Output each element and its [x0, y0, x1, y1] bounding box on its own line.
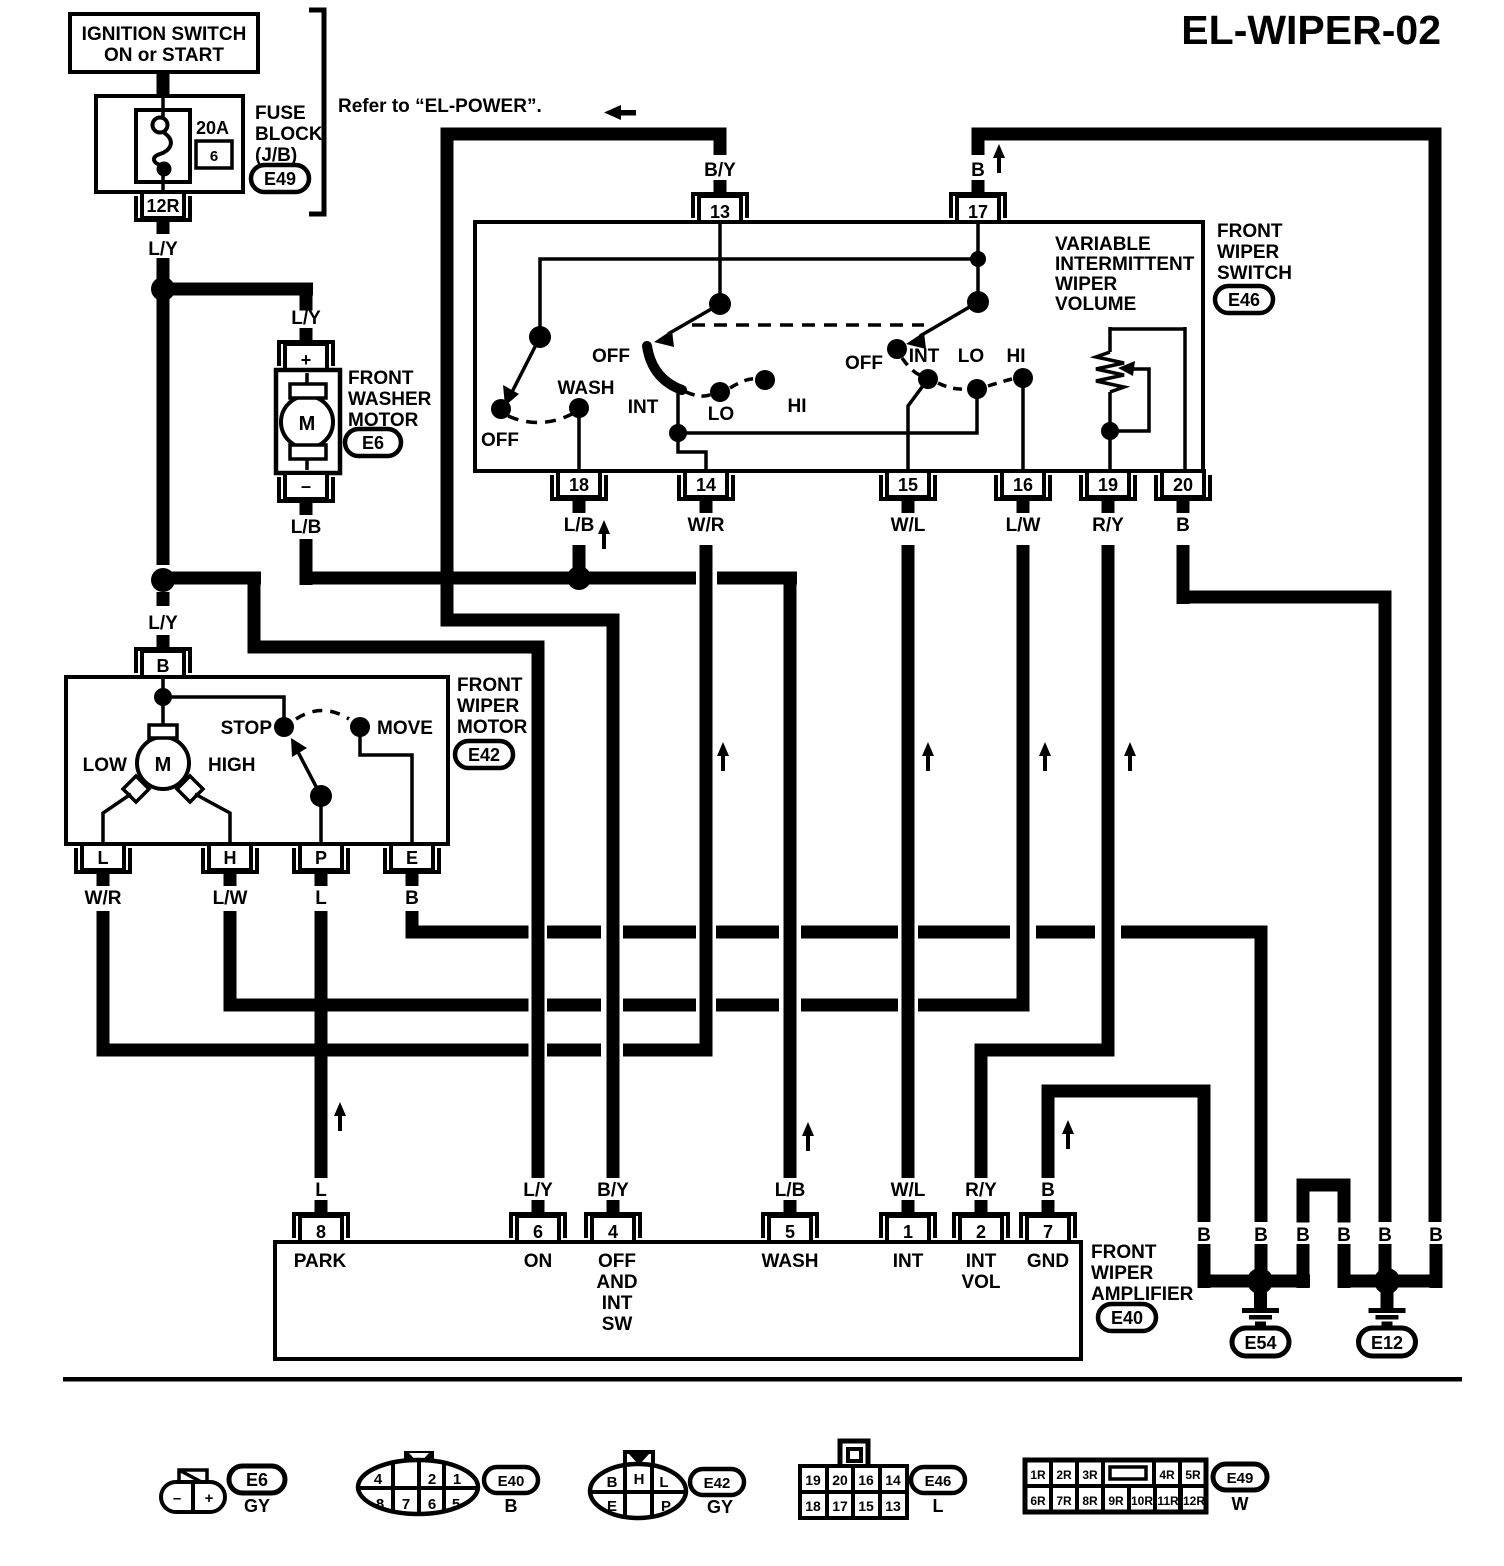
svg-text:B: B — [1197, 1225, 1211, 1246]
arrow up on W/L wire — [922, 742, 934, 771]
wire E12 right arm — [1395, 1244, 1443, 1288]
wire label L/Y washer — [291, 308, 321, 329]
svg-text:L/B: L/B — [291, 517, 322, 538]
front washer motor body M — [276, 370, 340, 473]
svg-text:WIPER: WIPER — [1217, 242, 1280, 263]
svg-text:E: E — [406, 848, 418, 868]
svg-text:10R: 10R — [1131, 1494, 1153, 1508]
svg-text:BLOCK: BLOCK — [255, 124, 323, 145]
fuse block label — [255, 103, 323, 166]
arrow up at 17 — [993, 144, 1005, 173]
ground B label 2 — [1254, 1225, 1268, 1246]
svg-text:L/B: L/B — [775, 1180, 806, 1201]
svg-text:9R: 9R — [1108, 1494, 1124, 1508]
legend E49 connector face — [1025, 1460, 1206, 1512]
wire label L motor — [315, 888, 327, 909]
main switch pivot node — [709, 293, 731, 315]
svg-text:+: + — [301, 350, 312, 370]
wire label W/L 15 — [891, 515, 926, 536]
legend E42 connector face — [590, 1452, 686, 1518]
svg-text:13: 13 — [710, 202, 730, 222]
connector 14 — [679, 471, 733, 513]
park switch dashed arc — [296, 711, 349, 720]
front wiper motor box E42 — [66, 677, 448, 844]
svg-text:GY: GY — [707, 1497, 733, 1517]
svg-text:20A: 20A — [196, 118, 229, 138]
ground symbol E12 — [1369, 1292, 1406, 1326]
node L/B bus junction — [567, 566, 591, 590]
svg-text:6R: 6R — [1030, 1494, 1046, 1508]
wire inside 13 down — [718, 222, 722, 304]
legend E6 connector face — [161, 1470, 225, 1512]
svg-text:E42: E42 — [468, 745, 500, 765]
svg-text:4: 4 — [374, 1471, 383, 1488]
amp pin label GND — [1027, 1251, 1069, 1272]
wire MOVE to E — [360, 727, 412, 844]
main switch LO contact — [708, 382, 734, 425]
svg-text:15: 15 — [898, 475, 918, 495]
svg-text:P: P — [315, 848, 327, 868]
svg-text:L/B: L/B — [564, 515, 595, 536]
legend E42 oval — [690, 1469, 744, 1495]
wire B feed top to ground — [972, 128, 1442, 1223]
svg-text:E42: E42 — [704, 1475, 731, 1492]
park switch MOVE contact — [350, 717, 433, 739]
wire junction to right LO — [678, 392, 977, 433]
ground B label 3 — [1296, 1225, 1310, 1246]
svg-text:R/Y: R/Y — [1092, 515, 1124, 536]
fuse value 20A — [196, 118, 229, 138]
wire label B motor — [405, 888, 419, 909]
svg-text:FRONT: FRONT — [457, 675, 523, 696]
amp pin label ON — [524, 1251, 553, 1272]
wire E12 top arm — [1379, 1244, 1392, 1274]
resistor top wire to 20 — [1110, 327, 1185, 471]
svg-text:5: 5 — [452, 1496, 460, 1513]
wire pivot to P — [319, 796, 323, 844]
svg-text:B: B — [1254, 1225, 1268, 1246]
svg-text:1: 1 — [453, 1471, 461, 1488]
amp pin label WASH — [762, 1251, 819, 1272]
node small on 17 wire — [970, 251, 986, 267]
washer motor plus connector — [279, 328, 333, 370]
svg-text:16: 16 — [858, 1472, 874, 1488]
svg-text:E54: E54 — [1244, 1333, 1276, 1353]
svg-text:–: – — [301, 476, 311, 496]
svg-text:WIPER: WIPER — [1091, 1263, 1154, 1284]
svg-text:W: W — [1232, 1494, 1249, 1514]
washer motor minus connector — [279, 473, 333, 515]
wire HI to 16 — [1021, 378, 1025, 471]
svg-text:L/Y: L/Y — [523, 1180, 553, 1201]
svg-text:L: L — [315, 888, 327, 909]
svg-text:E: E — [607, 1498, 617, 1515]
wire stub below junction — [157, 592, 170, 606]
svg-text:6: 6 — [533, 1222, 543, 1242]
svg-text:WASHER: WASHER — [348, 389, 432, 410]
wire label L/W motor — [213, 888, 248, 909]
svg-text:PARK: PARK — [294, 1251, 347, 1272]
legend E46 color L — [933, 1496, 944, 1516]
wire stub 17 — [972, 134, 985, 155]
connector 13 — [693, 180, 747, 222]
wire label R/Y 19 — [1092, 515, 1124, 536]
wash switch wiper arm — [503, 337, 540, 406]
svg-text:WIPER: WIPER — [457, 696, 520, 717]
legend E49 oval — [1213, 1464, 1267, 1490]
svg-text:LOW: LOW — [83, 755, 127, 776]
wire label W/L amp 1 — [891, 1180, 926, 1201]
wire E54 top arm — [1255, 1244, 1268, 1274]
connector B wiper motor — [136, 635, 190, 677]
wire E54 left arm — [1198, 1244, 1254, 1288]
svg-text:8: 8 — [316, 1222, 326, 1242]
svg-text:R/Y: R/Y — [965, 1180, 997, 1201]
wire label R/Y amp 2 — [965, 1180, 997, 1201]
svg-text:2: 2 — [976, 1222, 986, 1242]
connector E42 oval — [455, 741, 513, 768]
svg-text:–: – — [173, 1490, 181, 1507]
wire label B/Y 13 — [704, 160, 736, 181]
svg-text:E46: E46 — [1228, 290, 1260, 310]
svg-text:L/Y: L/Y — [148, 239, 178, 260]
svg-text:1R: 1R — [1030, 1468, 1046, 1482]
svg-text:INT: INT — [966, 1251, 997, 1272]
svg-text:8R: 8R — [1082, 1494, 1098, 1508]
svg-text:B/Y: B/Y — [704, 160, 736, 181]
svg-text:HIGH: HIGH — [208, 755, 256, 776]
arrow left on B/Y feed — [604, 105, 636, 120]
svg-text:2: 2 — [428, 1471, 436, 1488]
right switch INT contact — [909, 346, 940, 389]
separator line — [63, 1377, 1462, 1382]
wire E12 left arm — [1338, 1244, 1381, 1288]
wire label L/W 16 — [1006, 515, 1041, 536]
front wiper amplifier label — [1091, 1242, 1194, 1305]
wire inside 17 to wash switch — [540, 222, 978, 330]
park switch STOP contact — [221, 717, 294, 739]
svg-text:W/L: W/L — [891, 515, 926, 536]
resistor variable — [1096, 327, 1124, 471]
wire INT to 15 — [908, 379, 928, 471]
svg-text:4: 4 — [608, 1222, 618, 1242]
legend E40 connector face — [358, 1451, 478, 1514]
svg-text:7: 7 — [402, 1496, 410, 1513]
svg-text:P: P — [661, 1498, 671, 1515]
main switch INT label — [628, 397, 659, 418]
connector E40 oval — [1098, 1304, 1156, 1331]
svg-text:OFF: OFF — [481, 430, 519, 451]
svg-text:Refer to “EL-POWER”.: Refer to “EL-POWER”. — [338, 96, 542, 117]
wire W/L 15 to amp INT — [902, 545, 915, 1178]
wire branch to washer motor — [163, 283, 313, 311]
wire L/W 16 to motor H — [224, 545, 1030, 1012]
amp pin label OFF AND INT SW — [596, 1251, 637, 1335]
svg-text:ON or START: ON or START — [104, 45, 224, 66]
wire B motor to ground bus — [406, 911, 1268, 1222]
legend E46 connector face — [800, 1441, 907, 1518]
right switch HI contact — [1007, 346, 1034, 388]
svg-text:7: 7 — [1043, 1222, 1053, 1242]
amp pin label INT — [893, 1251, 924, 1272]
front wiper motor label — [457, 675, 528, 738]
svg-text:B: B — [505, 1496, 518, 1516]
front wiper amplifier box E40 — [275, 1242, 1081, 1359]
ground B label 4 — [1337, 1225, 1351, 1246]
svg-text:L/Y: L/Y — [291, 308, 321, 329]
svg-text:W/R: W/R — [85, 888, 122, 909]
svg-text:6: 6 — [210, 148, 218, 165]
svg-text:LO: LO — [708, 404, 734, 425]
connector 2 amp — [954, 1200, 1008, 1242]
wire L motor to amp PARK — [315, 911, 328, 1178]
svg-text:L: L — [98, 848, 109, 868]
wire washer motor to L/B bus — [300, 539, 313, 585]
svg-text:19: 19 — [805, 1472, 821, 1488]
resistor wiper arrow — [1110, 361, 1149, 431]
wire label B/Y amp 4 — [597, 1180, 629, 1201]
wire label L/B washer — [291, 517, 322, 538]
svg-text:INT: INT — [602, 1293, 633, 1314]
svg-text:1: 1 — [903, 1222, 913, 1242]
connector P motor — [294, 844, 348, 886]
connector 18 — [552, 471, 606, 513]
svg-text:OFF: OFF — [845, 353, 883, 374]
node junction L/Y at bus — [151, 568, 175, 592]
connector 8 amp — [294, 1200, 348, 1242]
arrow up on W/R wire — [717, 742, 729, 771]
svg-text:EL-WIPER-02: EL-WIPER-02 — [1181, 7, 1441, 53]
svg-text:SWITCH: SWITCH — [1217, 263, 1292, 284]
park switch wiper arm — [291, 738, 321, 796]
fuse number 6 box — [196, 141, 232, 168]
svg-text:7R: 7R — [1056, 1494, 1072, 1508]
amp pin label PARK — [294, 1251, 347, 1272]
wire amp GND to ground bus — [1042, 1085, 1211, 1223]
wire label L/Y amp 6 — [523, 1180, 553, 1201]
svg-text:20: 20 — [1173, 475, 1193, 495]
wire main L/Y vertical — [157, 298, 170, 565]
svg-text:VOL: VOL — [961, 1272, 1000, 1293]
connector E54 oval — [1232, 1328, 1289, 1356]
svg-text:VOLUME: VOLUME — [1055, 294, 1136, 315]
wire label L/B amp 5 — [775, 1180, 806, 1201]
connector H motor — [203, 844, 257, 886]
svg-text:B: B — [1176, 515, 1190, 536]
wire label W/R motor — [85, 888, 122, 909]
ground B label 6 — [1429, 1225, 1443, 1246]
label variable intermittent wiper volume — [1055, 234, 1195, 315]
wire ignition to fuse block — [157, 72, 170, 96]
connector 12R — [136, 192, 190, 234]
svg-text:E49: E49 — [264, 169, 296, 189]
svg-text:8: 8 — [376, 1496, 384, 1513]
svg-text:2R: 2R — [1056, 1468, 1072, 1482]
svg-text:13: 13 — [885, 1498, 901, 1514]
wash switch common node — [529, 326, 551, 348]
svg-text:12R: 12R — [1183, 1494, 1205, 1508]
park switch pivot node — [310, 785, 332, 807]
connector E motor — [385, 844, 439, 886]
wire B/Y feed top — [441, 128, 727, 1179]
wire brush to H — [195, 794, 230, 844]
svg-text:B: B — [1378, 1225, 1392, 1246]
wire R/Y 19 to amp INT VOL — [975, 545, 1115, 1178]
svg-text:E40: E40 — [498, 1473, 525, 1490]
svg-text:W/R: W/R — [688, 515, 725, 536]
svg-text:14: 14 — [885, 1472, 901, 1488]
legend E6 color GY — [244, 1496, 270, 1516]
svg-text:STOP: STOP — [221, 718, 273, 739]
node ground E12 — [1374, 1268, 1400, 1294]
wire label L/Y under 12R — [148, 239, 178, 260]
svg-text:3R: 3R — [1082, 1468, 1098, 1482]
wire WASH to 18 — [577, 408, 581, 471]
dashed mechanical link — [692, 323, 924, 327]
svg-text:M: M — [299, 413, 316, 435]
main switch OFF label — [592, 346, 630, 367]
right switch OFF contact — [845, 339, 907, 374]
node motor B internal — [154, 688, 172, 706]
connector 4 amp — [586, 1200, 640, 1242]
svg-text:18: 18 — [569, 475, 589, 495]
node ground E54 — [1247, 1268, 1273, 1294]
bracket refer EL-POWER — [309, 10, 542, 214]
svg-text:B: B — [1337, 1225, 1351, 1246]
svg-text:H: H — [224, 848, 237, 868]
svg-text:E6: E6 — [246, 1470, 268, 1490]
wash switch dashed arc — [508, 414, 572, 423]
svg-text:B/Y: B/Y — [597, 1180, 629, 1201]
fuse block E49 box — [96, 96, 243, 192]
wash switch OFF contact — [481, 399, 519, 451]
svg-text:FRONT: FRONT — [348, 368, 414, 389]
svg-text:20: 20 — [832, 1472, 848, 1488]
connector 16 — [996, 471, 1050, 513]
svg-text:E49: E49 — [1227, 1470, 1254, 1487]
svg-text:GY: GY — [244, 1496, 270, 1516]
wiper motor M — [123, 725, 203, 802]
svg-text:B: B — [405, 888, 419, 909]
wire label L/B 18 — [564, 515, 595, 536]
right switch LO contact — [958, 346, 987, 399]
node junction to washer motor — [151, 277, 175, 301]
svg-text:4R: 4R — [1159, 1468, 1175, 1482]
fuse 20A element — [136, 96, 190, 192]
svg-text:INT: INT — [893, 1251, 924, 1272]
svg-text:B: B — [1041, 1180, 1055, 1201]
svg-text:16: 16 — [1013, 475, 1033, 495]
wire label B 17 — [971, 160, 985, 181]
right switch common node — [967, 291, 989, 313]
svg-text:HI: HI — [1007, 346, 1026, 367]
svg-text:INT: INT — [628, 397, 659, 418]
svg-text:6: 6 — [428, 1496, 436, 1513]
node resistor bottom — [1101, 422, 1119, 440]
svg-text:L/W: L/W — [1006, 515, 1041, 536]
svg-text:VARIABLE: VARIABLE — [1055, 234, 1151, 255]
ignition switch source box — [70, 14, 258, 72]
svg-text:B: B — [971, 160, 985, 181]
connector E12 oval — [1359, 1328, 1416, 1356]
wire label L/Y motor B — [148, 613, 178, 634]
svg-text:E6: E6 — [362, 433, 384, 453]
main switch HI contact — [755, 370, 807, 417]
svg-text:L: L — [659, 1474, 668, 1491]
front washer motor label — [348, 368, 432, 431]
arrow up on R/Y wire — [1124, 742, 1136, 771]
svg-text:AND: AND — [596, 1272, 637, 1293]
connector 7 amp — [1021, 1200, 1075, 1242]
wire label W/R 14 — [688, 515, 725, 536]
svg-text:FUSE: FUSE — [255, 103, 306, 124]
wire L/B bus — [300, 572, 797, 1179]
ground symbol E54 — [1242, 1292, 1279, 1326]
svg-text:IGNITION SWITCH: IGNITION SWITCH — [82, 24, 247, 45]
svg-text:15: 15 — [858, 1498, 874, 1514]
connector 1 amp — [881, 1200, 935, 1242]
arrow up on L/W wire — [1039, 742, 1051, 771]
svg-text:L: L — [933, 1496, 944, 1516]
svg-text:OFF: OFF — [598, 1251, 636, 1272]
label LOW HIGH — [83, 755, 256, 776]
connector L motor — [76, 844, 130, 886]
svg-text:5R: 5R — [1185, 1468, 1201, 1482]
wire 18 to L/B bus — [573, 545, 586, 570]
svg-text:L: L — [315, 1180, 327, 1201]
wire bridge B3 B4 — [1297, 1179, 1351, 1223]
svg-text:12R: 12R — [146, 196, 179, 216]
main switch wiper arm — [654, 304, 720, 347]
svg-text:B: B — [1296, 1225, 1310, 1246]
wire brush to L — [103, 794, 131, 844]
wire label L amp 8 — [315, 1180, 327, 1201]
title EL-WIPER-02 — [1181, 7, 1441, 53]
svg-text:WASH: WASH — [762, 1251, 819, 1272]
svg-text:W/L: W/L — [891, 1180, 926, 1201]
main switch OFF crescent — [647, 346, 682, 390]
wire L/Y branch to amplifier ON — [163, 572, 545, 1179]
svg-text:B: B — [1429, 1225, 1443, 1246]
wash switch WASH contact — [558, 378, 615, 418]
svg-text:OFF: OFF — [592, 346, 630, 367]
main switch dashed to LO HI — [686, 379, 757, 396]
svg-text:MOTOR: MOTOR — [457, 717, 528, 738]
connector E6 oval — [345, 429, 401, 456]
wire E54 right arm — [1268, 1244, 1310, 1288]
svg-text:11R: 11R — [1157, 1494, 1179, 1508]
svg-text:LO: LO — [958, 346, 984, 367]
connector 19 — [1081, 471, 1135, 513]
svg-text:B: B — [607, 1474, 618, 1491]
wire label B 20 — [1176, 515, 1190, 536]
svg-text:5: 5 — [785, 1222, 795, 1242]
wire B 20 to ground E12 — [1177, 545, 1392, 1222]
legend E42 color GY — [707, 1497, 733, 1517]
legend E40 color B — [505, 1496, 518, 1516]
svg-text:17: 17 — [832, 1498, 848, 1514]
svg-text:17: 17 — [968, 202, 988, 222]
arrow up on L/B wire to amp — [802, 1122, 814, 1151]
ground B label 1 — [1197, 1225, 1211, 1246]
svg-text:HI: HI — [788, 396, 807, 417]
connector 15 — [881, 471, 935, 513]
svg-text:INTERMITTENT: INTERMITTENT — [1055, 254, 1195, 275]
svg-text:MOVE: MOVE — [377, 718, 433, 739]
legend E40 oval — [484, 1467, 538, 1493]
svg-text:ON: ON — [524, 1251, 553, 1272]
connector E49 oval — [251, 165, 309, 192]
